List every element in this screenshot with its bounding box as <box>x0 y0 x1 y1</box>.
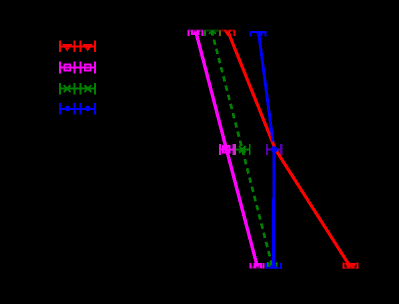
legend errorbar sample red R1 <box>60 41 95 53</box>
legend errorbar sample blue B1 <box>60 103 95 115</box>
red data line <box>228 30 351 267</box>
purple mid errorbar (blue over red blend) bar <box>266 148 282 150</box>
blue data line <box>259 32 275 268</box>
magenta mid errorbar bar <box>219 148 234 150</box>
green+red overlapped cap (olive) <box>219 30 221 36</box>
blue bottom caps <box>265 263 267 269</box>
green dashed data line <box>212 30 273 266</box>
red bottom marker triangle-down (clipped at bottom spine) <box>347 264 355 271</box>
magenta mid caps <box>219 144 221 155</box>
blue bottom errorbar bar (darkened over spine) <box>265 267 281 269</box>
red top marker triangle-down (clipped at top spine) <box>224 28 232 35</box>
blue top caps <box>250 32 252 37</box>
red line overlay across purple bar <box>272 142 282 160</box>
red bottom errorbar bar (over spine, darkened) <box>343 267 359 269</box>
green bottom caps <box>267 262 269 267</box>
blue top marker circle <box>257 31 263 37</box>
legend errorbar sample green G1 <box>60 83 95 95</box>
magenta bottom caps <box>249 263 251 269</box>
red bottom errorbar caps <box>343 263 345 269</box>
green mid right cap <box>249 144 251 155</box>
magenta bottom errorbar bar (darkened over spine) <box>249 267 264 269</box>
legend errorbar sample magenta M1 <box>60 62 95 74</box>
magenta bottom marker square (clipped) <box>255 264 261 270</box>
magenta top caps <box>188 30 190 36</box>
green bottom errorbar bar <box>267 265 277 267</box>
magenta mid marker square <box>223 146 229 152</box>
red top errorbar bar (over spine, darkened) <box>220 29 235 31</box>
green mid left cap (blends with magenta cap) <box>234 144 236 155</box>
green bottom marker x (clipped) <box>269 263 275 269</box>
purple mid caps <box>266 144 268 155</box>
magenta top errorbar bar (darkened over spine) <box>188 29 204 31</box>
blue mid marker circle <box>271 146 278 153</box>
red top errorbar right cap <box>233 30 235 36</box>
magenta data line <box>196 30 258 267</box>
green mid errorbar bar <box>235 148 251 150</box>
blue bottom marker circle (clipped) <box>270 264 277 271</box>
magenta top marker square (clipped) <box>192 27 198 33</box>
green top left cap <box>204 30 206 36</box>
green top errorbar bar (darkened over spine) <box>204 29 219 31</box>
blue top errorbar bar <box>250 31 266 33</box>
green top marker x (clipped) <box>209 27 216 34</box>
green mid marker x <box>239 146 246 153</box>
